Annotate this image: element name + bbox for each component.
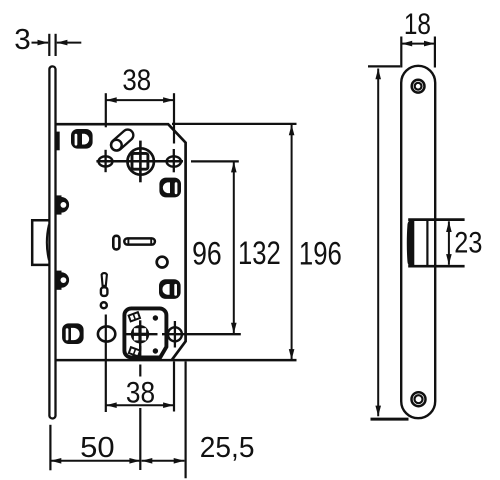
- horizontal centerline through cylinder: [126, 333, 241, 335]
- strike plate bottom screw hole: [412, 392, 426, 406]
- bottom-left screw hole: [98, 326, 115, 341]
- bottom-right screw hole with crosshair: [168, 321, 182, 348]
- svg-text:38: 38: [122, 64, 151, 97]
- svg-text:96: 96: [192, 236, 222, 272]
- horizontal capsule slot (middle): [124, 238, 155, 245]
- svg-text:132: 132: [238, 235, 281, 271]
- body top edge extension line: [172, 123, 297, 125]
- dimension 25,5: [142, 460, 185, 462]
- dimension 3 (faceplate thickness): [32, 34, 82, 56]
- small circle (center): [157, 257, 168, 268]
- right screw hole with crosshair: [167, 149, 181, 172]
- angled slot with end hole: [111, 135, 128, 150]
- dimension 18 (strike plate width): [401, 37, 435, 68]
- angled screw slot lower: [129, 347, 140, 356]
- angled screw slot upper: [129, 312, 140, 321]
- left screw hole with crosshair: [99, 150, 113, 172]
- dimension 50: [50, 425, 140, 471]
- dimension 38 bottom: [106, 315, 186, 479]
- svg-text:3: 3: [14, 24, 31, 56]
- screw boss D right-lower (mirrored): [159, 279, 181, 299]
- rivet dot lower: [153, 348, 158, 353]
- cylinder housing (rounded square with chamfer): [124, 308, 166, 357]
- svg-text:25,5: 25,5: [200, 432, 255, 464]
- screw boss D right-upper (mirrored): [159, 178, 181, 198]
- dimension 96 (vertical): [191, 161, 239, 333]
- body bottom edge + extension line: [56, 359, 297, 362]
- strike plate (front view, right): [401, 66, 435, 418]
- strike plate height dimension (unlabeled): [368, 66, 409, 419]
- svg-text:50: 50: [80, 432, 115, 464]
- guide tab ring on left edge (lower): [56, 271, 69, 290]
- latch bolt: [32, 220, 49, 265]
- svg-text:196: 196: [299, 235, 342, 271]
- svg-text:23: 23: [454, 226, 482, 259]
- latch opening with bent lip: [407, 220, 465, 267]
- guide tab ring on left edge (upper): [56, 195, 69, 214]
- small vertical slot (middle): [113, 236, 119, 250]
- dimension 38 top: [106, 93, 174, 143]
- dimension 196 (vertical, body height): [291, 125, 293, 360]
- strike plate top screw hole: [412, 80, 425, 93]
- faceplate (lock side view, left): [49, 66, 55, 418]
- screw boss D top-left: [71, 129, 93, 149]
- dimension 23 (latch opening height): [448, 221, 450, 264]
- exclamation slot: [101, 273, 108, 308]
- spindle follower (square hub): [96, 141, 183, 183]
- lock body outline: [56, 124, 186, 360]
- tab bar on body left edge (top): [56, 132, 59, 151]
- svg-text:38: 38: [126, 377, 155, 410]
- svg-text:18: 18: [404, 8, 431, 41]
- WC turn hub (quartered circle): [131, 325, 149, 343]
- rivet dot upper: [153, 315, 158, 320]
- screw boss D bottom-left: [62, 323, 84, 344]
